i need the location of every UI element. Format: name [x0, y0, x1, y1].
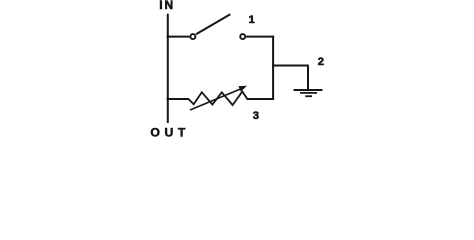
wire ground drop	[307, 66, 309, 91]
wire bottom right	[247, 98, 275, 100]
ground symbol	[294, 90, 323, 96]
potentiometer wiper arrow	[190, 86, 247, 110]
potentiometer body	[189, 92, 248, 105]
wire ground branch	[272, 65, 309, 67]
switch throw contact	[240, 34, 245, 39]
wire input rail	[167, 14, 169, 123]
svg-text:IN: IN	[159, 0, 175, 12]
switch lever	[196, 14, 230, 34]
svg-text:OUT: OUT	[150, 126, 190, 139]
svg-text:3: 3	[253, 110, 259, 122]
wire pole feed	[167, 36, 190, 38]
wire bottom left	[167, 98, 189, 100]
wire throw to right rail	[246, 36, 274, 38]
svg-text:2: 2	[318, 56, 324, 68]
wire right rail	[272, 36, 274, 100]
switch pole contact	[190, 34, 195, 39]
svg-text:1: 1	[248, 14, 254, 26]
